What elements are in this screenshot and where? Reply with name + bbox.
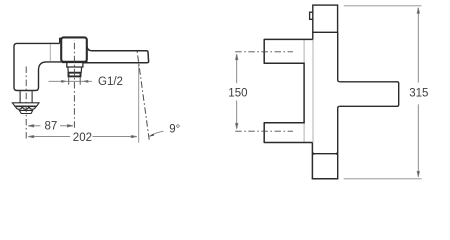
aerator scallops bbox=[16, 106, 36, 109]
G1/2 extension ticks bbox=[68, 77, 70, 84]
spout elbow body outline bbox=[14, 38, 67, 90]
G1/2 thread step 1 bbox=[67, 63, 83, 67]
G1/2 dimension line and arrows bbox=[49, 80, 93, 82]
9 degree arc arrow bbox=[150, 131, 164, 136]
202 dimension line bbox=[28, 136, 136, 138]
foot divider line bbox=[312, 153, 337, 155]
svg-text:315: 315 bbox=[409, 88, 428, 100]
top inlet arm bbox=[264, 39, 313, 63]
svg-text:G1/2: G1/2 bbox=[98, 76, 123, 88]
body lower-left edge bbox=[311, 143, 313, 179]
aerator flange bbox=[12, 103, 39, 107]
G1/2 centerline bbox=[73, 40, 75, 128]
svg-text:9°: 9° bbox=[169, 123, 180, 135]
spout centerline bbox=[25, 67, 27, 139]
bottom arm centerline bbox=[235, 130, 293, 132]
arm step up at block left bbox=[60, 38, 63, 43]
315 extension lines bbox=[344, 5, 422, 7]
lever handle (side view) bbox=[83, 46, 149, 63]
G1/2 thread step 2 bbox=[68, 67, 82, 73]
87 dimension line bbox=[28, 125, 73, 127]
svg-text:150: 150 bbox=[228, 88, 247, 100]
valve block (thick outline) bbox=[61, 37, 87, 61]
casting joint line (light) bbox=[49, 44, 51, 61]
svg-text:202: 202 bbox=[73, 132, 92, 144]
svg-text:87: 87 bbox=[45, 121, 58, 133]
handle vertical extension line bbox=[138, 63, 140, 143]
G1/2 thread end (bold) bbox=[69, 73, 81, 77]
body upper-left edge bbox=[312, 32, 314, 39]
body right edge upper bbox=[338, 32, 340, 82]
cap notch bbox=[310, 12, 313, 19]
top arm centerline bbox=[235, 51, 293, 53]
cap bbox=[313, 5, 338, 32]
hidden edge lines (light) bbox=[312, 39, 314, 142]
315 dimension line bbox=[417, 8, 419, 177]
body left edge between arms bbox=[303, 63, 305, 124]
handle arm (front view) bbox=[340, 82, 399, 107]
body right edge lower bbox=[338, 106, 340, 179]
bottom inlet arm bbox=[264, 123, 312, 143]
arm/block bottom line bbox=[62, 61, 88, 63]
body bottom edge bbox=[312, 178, 339, 180]
9 degree tilt line (dash-dot) bbox=[137, 49, 149, 140]
aerator neck bbox=[19, 91, 21, 103]
aerator tip bbox=[19, 110, 32, 113]
150 dimension line bbox=[236, 54, 238, 128]
